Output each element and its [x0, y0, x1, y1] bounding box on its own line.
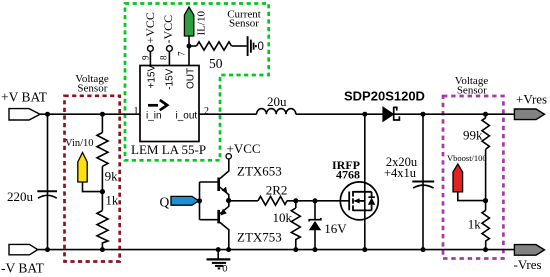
svg-text:20u: 20u — [267, 94, 287, 109]
svg-text:220u: 220u — [7, 189, 34, 204]
svg-text:4768: 4768 — [336, 168, 360, 182]
svg-text:2: 2 — [204, 106, 209, 117]
svg-text:IL/10: IL/10 — [196, 11, 208, 36]
svg-text:99k: 99k — [463, 128, 483, 143]
svg-text:7: 7 — [177, 51, 187, 56]
svg-text:Vin/10: Vin/10 — [65, 138, 94, 149]
svg-text:i_out: i_out — [176, 110, 198, 121]
svg-text:OUT: OUT — [186, 68, 197, 89]
svg-text:-V BAT: -V BAT — [1, 261, 45, 276]
svg-text:Vboost/100: Vboost/100 — [447, 153, 487, 163]
svg-text:-15V: -15V — [165, 68, 176, 89]
svg-text:1k: 1k — [105, 193, 119, 208]
svg-text:ZTX653: ZTX653 — [237, 164, 282, 179]
svg-text:9: 9 — [141, 55, 151, 60]
svg-text:0: 0 — [222, 263, 227, 274]
svg-text:+VCC: +VCC — [227, 141, 261, 156]
svg-text:1k: 1k — [468, 216, 482, 231]
svg-text:i_in: i_in — [146, 110, 162, 121]
svg-text:Q: Q — [160, 195, 170, 210]
svg-text:50: 50 — [209, 56, 223, 71]
svg-text:ZTX753: ZTX753 — [237, 229, 282, 244]
svg-text:+VCC: +VCC — [143, 12, 157, 43]
svg-text:-Vres: -Vres — [514, 257, 542, 272]
svg-text:+4x1u: +4x1u — [384, 166, 417, 180]
svg-text:-VCC: -VCC — [161, 15, 175, 44]
svg-text:+15V: +15V — [147, 65, 158, 89]
svg-text:Sensor: Sensor — [229, 18, 259, 30]
svg-text:10k: 10k — [273, 210, 293, 225]
svg-text:2R2: 2R2 — [266, 183, 288, 198]
svg-text:9k: 9k — [105, 169, 119, 184]
svg-text:Sensor: Sensor — [457, 85, 487, 97]
svg-text:Sensor: Sensor — [77, 83, 107, 95]
svg-text:LEM LA 55-P: LEM LA 55-P — [131, 142, 206, 157]
svg-text:8: 8 — [159, 55, 169, 60]
svg-text:+V BAT: +V BAT — [1, 90, 48, 105]
svg-text:SDP20S120D: SDP20S120D — [344, 89, 425, 104]
svg-text:16V: 16V — [324, 221, 347, 236]
svg-text:0: 0 — [258, 41, 264, 53]
svg-text:+Vres: +Vres — [516, 92, 547, 107]
svg-text:1: 1 — [134, 106, 139, 117]
